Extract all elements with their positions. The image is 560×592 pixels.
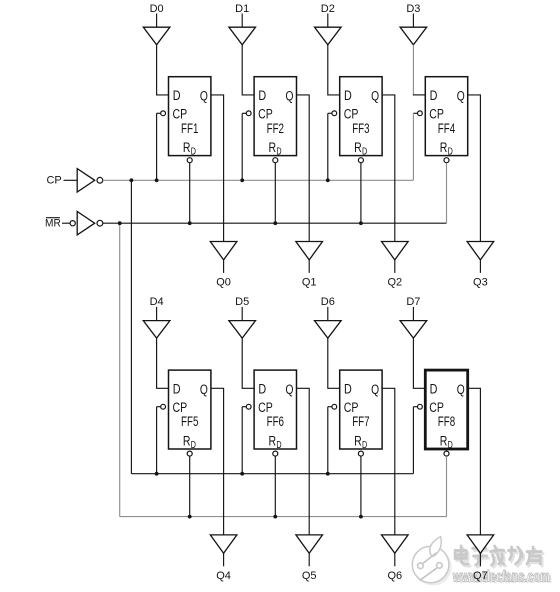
wire D0 buffer to FF1 pin D (157, 45, 169, 95)
svg-text:Q: Q (200, 382, 208, 397)
wire MR rail (bottom) (120, 516, 447, 518)
svg-text:D0: D0 (150, 3, 164, 15)
svg-text:FF3: FF3 (352, 121, 369, 136)
node FF6 RD junction (273, 515, 277, 519)
wire CP rail (top) (103, 179, 413, 181)
svg-text:D: D (258, 382, 266, 397)
buffer D5 input (229, 321, 256, 339)
wire Q4 buffer stub (223, 553, 225, 566)
svg-text:Q: Q (457, 382, 465, 397)
svg-text:Q1: Q1 (302, 277, 317, 289)
wire FF8 RD branch to MR rail (446, 456, 448, 516)
wire FF5 RD branch to MR rail (189, 456, 191, 516)
svg-text:D1: D1 (235, 3, 249, 15)
wire FF5 pin Q to Q4 buffer (211, 388, 224, 535)
svg-text:D: D (191, 440, 196, 451)
svg-text:FF2: FF2 (267, 121, 284, 136)
svg-text:CP: CP (46, 175, 61, 187)
svg-text:Q: Q (371, 382, 379, 397)
buffer Q2 output (382, 242, 409, 260)
node FF2 CP junction (240, 178, 244, 182)
node FF7 CP junction (326, 472, 330, 476)
bubble FF6 pin RD (273, 451, 278, 456)
svg-text:MR: MR (45, 218, 61, 230)
watermark url www.elecfans.com (452, 568, 552, 587)
wire MR feeder vertical (119, 223, 121, 516)
svg-text:D: D (173, 88, 181, 103)
wire D5 label stub (241, 307, 243, 321)
node FF5 RD junction (188, 515, 192, 519)
node FF7 RD junction (359, 515, 363, 519)
wire FF6 CP branch to CP rail (242, 406, 246, 408)
wire FF8 pin Q to Q7 buffer (468, 388, 481, 535)
svg-text:D: D (191, 147, 196, 158)
bubble FF6 pin CP (246, 404, 251, 409)
wire FF2 RD branch to MR rail (274, 163, 276, 223)
bubble FF1 pin RD (187, 158, 192, 163)
wire Q1 buffer stub (308, 260, 310, 273)
wire D1 buffer to FF2 pin D (242, 45, 254, 95)
svg-text:D5: D5 (235, 296, 249, 308)
svg-text:CP: CP (173, 400, 188, 415)
svg-text:Q0: Q0 (216, 277, 231, 289)
bubble FF2 pin RD (273, 158, 278, 163)
svg-text:FF8: FF8 (438, 414, 455, 429)
buffer D0 input (143, 27, 170, 45)
svg-text:D: D (344, 382, 352, 397)
wire FF1 pin Q to Q0 buffer (211, 95, 224, 242)
bubble CP buffer output (97, 177, 103, 183)
node FF3 CP junction (326, 178, 330, 182)
node FF2 RD junction (273, 221, 277, 225)
wire D5 buffer to FF6 pin D (242, 338, 254, 388)
svg-text:Q6: Q6 (387, 570, 402, 582)
bubble FF3 pin CP (332, 111, 337, 116)
wire CP label to buffer (64, 179, 78, 181)
wire CP feeder vertical (130, 180, 132, 473)
svg-text:D: D (448, 440, 453, 451)
svg-text:R: R (354, 140, 362, 155)
wire FF1 CP branch to CP rail (157, 112, 161, 114)
buffer Q6 output (382, 535, 409, 553)
wire FF7 RD branch to MR rail (360, 456, 362, 516)
bubble FF7 pin RD (358, 451, 363, 456)
svg-text:Q7: Q7 (473, 570, 488, 582)
buffer Q5 output (296, 535, 323, 553)
watermark logo elecfans (412, 537, 451, 586)
flip-flop FF3 (340, 77, 382, 158)
node FF6 CP junction (240, 472, 244, 476)
node FF1 RD junction (188, 221, 192, 225)
bubble FF7 pin CP (332, 404, 337, 409)
svg-text:R: R (354, 433, 362, 448)
wire D7 label stub (412, 307, 414, 321)
svg-text:Q2: Q2 (387, 277, 402, 289)
svg-text:Q5: Q5 (302, 570, 317, 582)
svg-text:D6: D6 (321, 296, 335, 308)
flip-flop FF5 (169, 370, 211, 451)
wire D2 buffer to FF3 pin D (328, 45, 340, 95)
svg-text:Q: Q (457, 88, 465, 103)
wire D4 buffer to FF5 pin D (157, 338, 169, 388)
wire FF7 pin Q to Q6 buffer (382, 388, 395, 535)
wire D4 label stub (156, 307, 158, 321)
svg-text:D: D (430, 88, 438, 103)
wire Q5 buffer stub (308, 553, 310, 566)
svg-text:R: R (269, 433, 277, 448)
wire FF2 CP branch to CP rail (242, 112, 246, 114)
svg-text:D: D (430, 382, 438, 397)
wire FF4 RD branch to MR rail (446, 163, 448, 223)
buffer Q7 output (467, 535, 494, 553)
node FF5 CP junction (155, 472, 159, 476)
wire Q6 buffer stub (394, 553, 396, 566)
wire FF3 CP branch to CP rail (328, 112, 332, 114)
buffer D2 input (315, 27, 342, 45)
buffer Q4 output (210, 535, 237, 553)
svg-text:CP: CP (344, 107, 359, 122)
buffer D6 input (315, 321, 342, 339)
buffer Q1 output (296, 242, 323, 260)
svg-text:CP: CP (429, 107, 444, 122)
buffer MR (inverting) (77, 212, 95, 235)
flip-flop FF4 (425, 77, 467, 158)
svg-text:Q: Q (286, 88, 294, 103)
svg-text:R: R (183, 433, 191, 448)
svg-text:D7: D7 (406, 296, 420, 308)
svg-text:D: D (362, 440, 367, 451)
bubble FF5 pin RD (187, 451, 192, 456)
svg-text:D: D (448, 147, 453, 158)
svg-text:D: D (173, 382, 181, 397)
wire FF8 CP branch to CP rail (413, 406, 417, 408)
svg-text:Q: Q (286, 382, 294, 397)
svg-text:D: D (276, 440, 281, 451)
wire D6 label stub (327, 307, 329, 321)
svg-text:www.elecfans.com: www.elecfans.com (452, 568, 550, 585)
node MR feeder junction (118, 221, 122, 225)
svg-text:R: R (440, 433, 448, 448)
wire MR rail (top) (103, 222, 447, 224)
svg-text:FF5: FF5 (181, 414, 198, 429)
flip-flop FF8 (425, 370, 467, 451)
bubble FF1 pin CP (161, 111, 166, 116)
buffer D7 input (400, 321, 427, 339)
svg-text:Q4: Q4 (216, 570, 231, 582)
svg-text:CP: CP (258, 400, 273, 415)
node FF3 RD junction (359, 221, 363, 225)
svg-text:D: D (344, 88, 352, 103)
svg-text:Q: Q (371, 88, 379, 103)
buffer D1 input (229, 27, 256, 45)
svg-text:FF1: FF1 (181, 121, 198, 136)
bubble FF3 pin RD (358, 158, 363, 163)
wire Q3 buffer stub (479, 260, 481, 273)
svg-text:Q3: Q3 (473, 277, 488, 289)
svg-text:CP: CP (429, 400, 444, 415)
wire FF3 RD branch to MR rail (360, 163, 362, 223)
wire Q0 buffer stub (223, 260, 225, 273)
svg-text:D2: D2 (321, 3, 335, 15)
wire Q2 buffer stub (394, 260, 396, 273)
wire D2 label stub (327, 14, 329, 28)
bubble FF5 pin CP (161, 404, 166, 409)
svg-text:D: D (258, 88, 266, 103)
wire D3 label stub (412, 14, 414, 28)
wire D1 label stub (241, 14, 243, 28)
wire FF3 pin Q to Q2 buffer (382, 95, 395, 242)
wire D6 buffer to FF7 pin D (328, 338, 340, 388)
wire FF1 RD branch to MR rail (189, 163, 191, 223)
svg-text:D4: D4 (150, 296, 164, 308)
bubble MR buffer input (70, 221, 75, 226)
wire FF5 CP branch to CP rail (157, 406, 161, 408)
watermark text dianzifashaoyou (455, 546, 543, 567)
svg-text:R: R (183, 140, 191, 155)
wire Q7 buffer stub (479, 553, 481, 566)
wire FF6 pin Q to Q5 buffer (297, 388, 310, 535)
wire FF6 RD branch to MR rail (274, 456, 276, 516)
bubble FF2 pin CP (246, 111, 251, 116)
wire FF2 pin Q to Q1 buffer (297, 95, 310, 242)
svg-text:CP: CP (258, 107, 273, 122)
svg-text:CP: CP (173, 107, 188, 122)
buffer D4 input (143, 321, 170, 339)
wire D3 buffer to FF4 pin D (412, 45, 414, 95)
input label MR (active low, overline) (45, 218, 61, 230)
buffer Q3 output (467, 242, 494, 260)
svg-text:D3: D3 (406, 3, 420, 15)
bubble FF4 pin CP (418, 111, 423, 116)
wire FF4 CP branch to CP rail (413, 112, 417, 114)
flip-flop FF1 (169, 77, 211, 158)
svg-text:R: R (440, 140, 448, 155)
svg-text:FF7: FF7 (352, 414, 369, 429)
svg-text:R: R (269, 140, 277, 155)
wire FF4 pin Q to Q3 buffer (468, 95, 481, 242)
wire MR label to buffer (62, 222, 70, 224)
bubble FF8 pin CP (418, 404, 423, 409)
buffer D3 input (400, 27, 427, 45)
bubble MR buffer output (97, 220, 103, 226)
bubble FF8 pin RD (444, 451, 449, 456)
buffer CP (inverting) (77, 169, 95, 192)
svg-text:FF4: FF4 (438, 121, 456, 136)
buffer Q0 output (210, 242, 237, 260)
svg-text:CP: CP (344, 400, 359, 415)
flip-flop FF6 (254, 370, 296, 451)
svg-text:D: D (362, 147, 367, 158)
node FF1 CP junction (155, 178, 159, 182)
wire D7 buffer to FF8 pin D (413, 338, 425, 388)
svg-text:D: D (276, 147, 281, 158)
bubble FF4 pin RD (444, 158, 449, 163)
wire D0 label stub (156, 14, 158, 28)
wire CP rail (bottom) (131, 473, 413, 475)
flip-flop FF2 (254, 77, 296, 158)
flip-flop FF7 (340, 370, 382, 451)
wire FF7 CP branch to CP rail (328, 406, 332, 408)
svg-text:FF6: FF6 (267, 414, 284, 429)
node CP feeder junction (130, 178, 134, 182)
svg-text:Q: Q (200, 88, 208, 103)
